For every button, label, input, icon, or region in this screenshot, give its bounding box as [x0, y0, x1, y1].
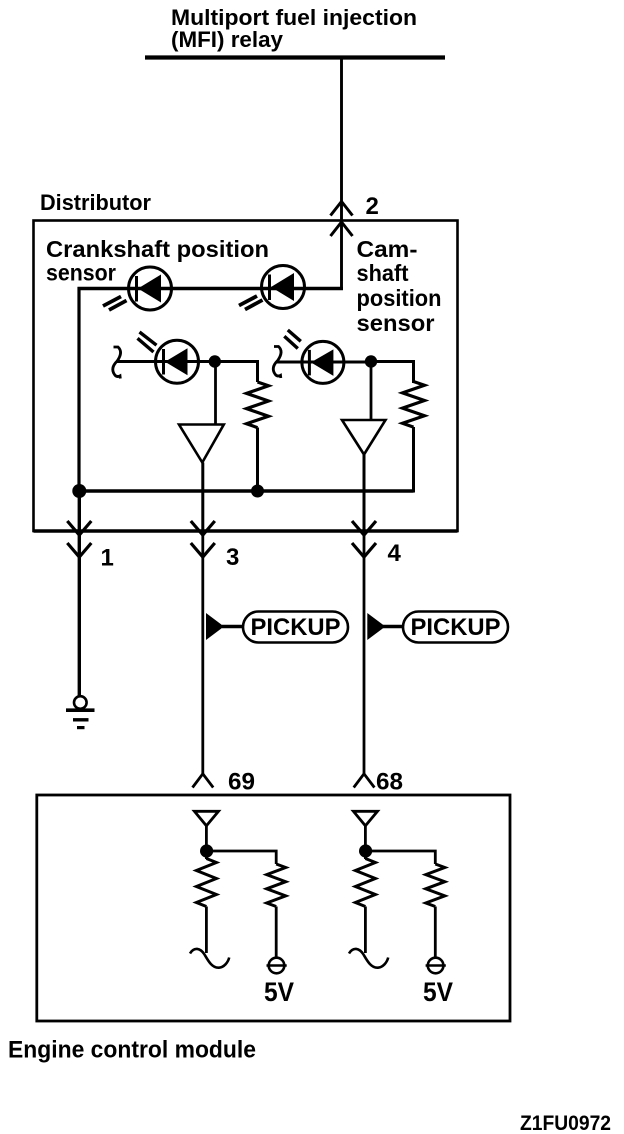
- svg-text:PICKUP: PICKUP: [251, 614, 341, 641]
- svg-text:1: 1: [101, 545, 114, 572]
- svg-text:(MFI) relay: (MFI) relay: [171, 27, 284, 52]
- svg-text:68: 68: [376, 769, 403, 796]
- svg-text:position: position: [357, 285, 442, 311]
- svg-text:sensor: sensor: [46, 260, 116, 286]
- svg-text:Cam-: Cam-: [357, 236, 418, 262]
- svg-text:Engine control module: Engine control module: [8, 1037, 256, 1064]
- svg-text:5V: 5V: [264, 977, 294, 1007]
- svg-text:2: 2: [366, 193, 379, 220]
- svg-text:Distributor: Distributor: [40, 190, 151, 215]
- svg-text:69: 69: [228, 769, 255, 796]
- svg-text:sensor: sensor: [357, 310, 435, 336]
- svg-text:3: 3: [226, 544, 239, 571]
- svg-text:5V: 5V: [423, 977, 453, 1007]
- svg-text:4: 4: [388, 540, 402, 567]
- svg-text:Crankshaft position: Crankshaft position: [46, 236, 269, 262]
- svg-text:PICKUP: PICKUP: [411, 614, 501, 641]
- svg-text:shaft: shaft: [357, 260, 409, 286]
- svg-text:Z1FU0972: Z1FU0972: [520, 1111, 611, 1134]
